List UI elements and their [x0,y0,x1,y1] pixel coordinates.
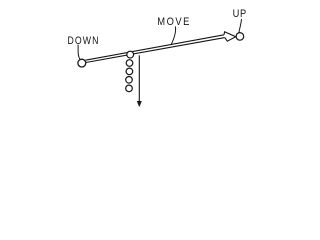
open arrowhead at right end of lever [224,32,236,41]
node: fulcrum circle on bar [127,51,134,58]
leader line from DOWN label [78,45,80,60]
svg-text:MOVE: MOVE [157,16,191,28]
svg-text:UP: UP [233,8,247,20]
node: chain circle 5 [126,85,133,92]
wire: lever bar lower line [86,38,225,63]
node: right circle (UP end) [236,33,244,41]
node: chain circle 4 [126,77,133,84]
node: left pivot circle (DOWN end) [78,59,86,67]
node: chain circle 3 [126,68,133,75]
wire: lever bar upper line [85,35,224,60]
leader line from MOVE label [171,27,175,45]
leader line from UP label [239,19,242,33]
wire: vertical force line [138,55,140,102]
svg-text:DOWN: DOWN [68,35,100,47]
node: chain circle 2 [126,60,133,67]
filled arrowhead pointing down [137,101,141,106]
